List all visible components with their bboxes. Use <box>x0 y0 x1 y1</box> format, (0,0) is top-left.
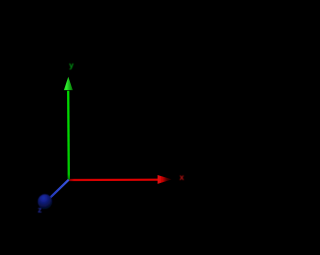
svg-text:z: z <box>38 205 42 214</box>
svg-text:x: x <box>179 172 184 182</box>
svg-text:y: y <box>69 61 74 70</box>
